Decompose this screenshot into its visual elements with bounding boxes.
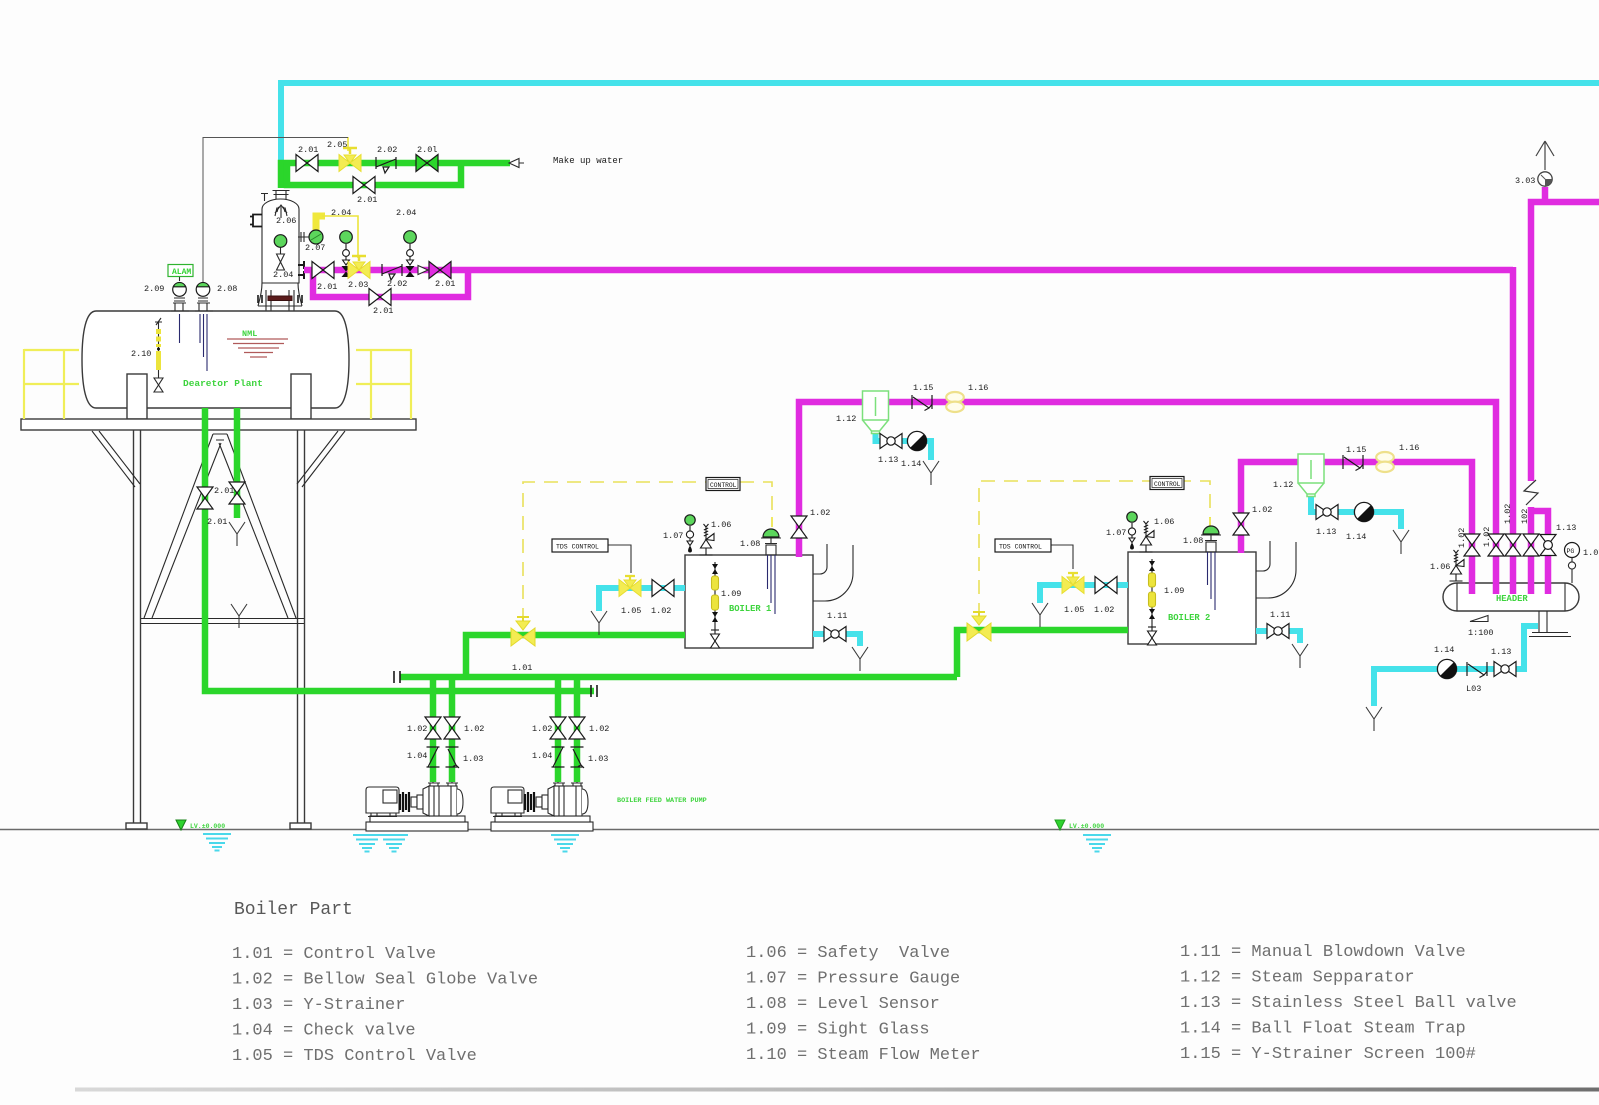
gauge glass 2.10 on tank [154,318,163,396]
wire: magenta line from right edge / vent 3.03 [1531,202,1599,481]
svg-text:2.04: 2.04 [331,208,351,218]
svg-text:1.14: 1.14 [1346,532,1366,542]
drain funnel below outlet B [229,522,245,546]
svg-text:1.13: 1.13 [1316,527,1336,537]
drain funnel TDS boiler 1 [591,611,607,635]
svg-text:1.13: 1.13 [1491,647,1511,657]
CONTROL box boiler 1 [706,478,740,491]
reducer / hose end make-up [509,159,524,168]
ALAM box [168,265,193,277]
pump 2 inlet valves 1.02 [550,717,566,739]
saddle supports [127,374,147,419]
header ball valve 1.13 [1540,535,1556,556]
nozzle: right to 2.07 [298,232,311,242]
wire: green make-up water line to deaerator head [281,163,510,188]
pump 2 strainer 1.03 [571,747,585,768]
svg-text:1.08: 1.08 [1183,536,1203,546]
wire: green riser and branch to boiler 2 [957,630,1128,677]
svg-text:1.11 = Manual Blowdown Valve: 1.11 = Manual Blowdown Valve [1180,943,1466,962]
drain funnel on truss tie [231,604,247,628]
spray nozzle 2.06 [275,205,287,218]
sight glass 1.09 boiler 2 [1148,559,1157,645]
svg-text:1.10 = Steam Flow Meter: 1.10 = Steam Flow Meter [746,1046,981,1065]
TDS CONTROL box boiler 1 [552,539,608,552]
svg-text:2.01: 2.01 [207,517,227,527]
svg-text:1.01 = Control Valve: 1.01 = Control Valve [232,945,436,964]
level probes 2.08/2.09 into tank [180,314,208,371]
wire: pump 2 suction/discharge drops [558,677,577,782]
valve 2.01 globe (steam line) [429,262,451,279]
svg-text:1.15: 1.15 [1346,445,1366,455]
svg-text:1.16: 1.16 [1399,443,1419,453]
svg-text:BOILER 1: BOILER 1 [729,604,771,614]
ball valve 1.13 separator 2 [1316,505,1338,520]
wire: magenta stub to vent 3.03 [1542,187,1549,202]
svg-text:1.03: 1.03 [588,754,608,764]
support legs [126,430,311,829]
svg-text:1.07: 1.07 [663,531,683,541]
svg-text:Dearetor Plant: Dearetor Plant [183,378,263,389]
instrument 2.07 PS [309,230,323,244]
svg-text:2.05: 2.05 [327,140,347,150]
drain funnel blowdown boiler 2 [1292,644,1308,668]
svg-text:1.06: 1.06 [1430,562,1450,572]
svg-text:1.09 = Sight Glass: 1.09 = Sight Glass [746,1021,930,1040]
svg-text:1.02: 1.02 [464,724,484,734]
vent 3.03 [1536,141,1554,186]
svg-text:1.02 = Bellow Seal Globe Valve: 1.02 = Bellow Seal Globe Valve [232,971,538,990]
steam separator 1.12 boiler 2 [1298,454,1324,497]
svg-text:1.02: 1.02 [1252,505,1272,515]
check valve 2.02 (make-up line) [376,157,396,173]
wire: cyan TDS blowdown boiler 2 [1040,585,1128,603]
svg-text:102: 102 [1520,509,1530,524]
safety valve 1.06 boiler 2 [1140,521,1155,552]
instrument 2.09 level alarm [173,276,187,301]
wire: cyan drain separator 1 [876,429,932,460]
globe valve 1.02 TDS boiler 2 [1095,577,1117,594]
drain funnel header condensate [1366,707,1382,731]
boiler 1 flue elbows [813,544,827,574]
water hatch symbols [203,834,231,851]
svg-text:NML: NML [242,329,257,339]
NML level hatch [227,339,288,357]
svg-text:1.15: 1.15 [913,383,933,393]
svg-text:1.04: 1.04 [532,751,552,761]
svg-text:TDS CONTROL: TDS CONTROL [556,544,599,551]
pressure gauge 1.07 header [1565,543,1580,584]
wire: CONTROL dashed loop boiler 1 [523,482,772,622]
header vessel [1443,583,1579,611]
valve 2.01 gate (make-up line) [296,155,318,172]
steam trap 1.14 separator 2 [1354,502,1373,521]
yellow railing right [356,349,411,419]
svg-text:1.06 = Safety Valve: 1.06 = Safety Valve [746,944,950,963]
svg-text:1.12: 1.12 [836,414,856,424]
svg-text:Make up water: Make up water [553,156,623,166]
drain funnel TDS boiler 2 [1032,603,1048,627]
wire: steam from separator 2 to header valve 1 [1324,462,1472,594]
wire: magenta below pipe break to header valve 4 [1528,507,1535,594]
svg-text:1.02: 1.02 [810,508,830,518]
flange pair on suction line end [591,685,597,697]
drain funnel blowdown boiler 1 [852,647,868,671]
svg-text:1.15 = Y-Strainer Screen 100#: 1.15 = Y-Strainer Screen 100# [1180,1045,1476,1064]
svg-text:1:100: 1:100 [1468,628,1494,638]
svg-text:1.12 = Steam Sepparator: 1.12 = Steam Sepparator [1180,969,1415,988]
valve 2.01 (steam line at head) [312,262,334,279]
wire: cyan bottom blowdown boiler 1 [813,634,860,646]
wire: green feed water header 1.01 [400,674,957,681]
level marker LV±0.000 right [1055,820,1065,830]
header inlet valves 1.02 x4 [1464,534,1480,556]
svg-text:1.09: 1.09 [1164,586,1184,596]
svg-text:3.03: 3.03 [1515,176,1535,186]
svg-text:1.13: 1.13 [1556,523,1576,533]
drain funnel separator 1 [923,461,939,485]
svg-text:2.01: 2.01 [357,195,377,205]
level sensor 1.08 boiler 1 [761,529,781,614]
svg-text:1.07: 1.07 [1583,548,1599,558]
svg-text:2.01: 2.01 [298,145,318,155]
svg-text:2.02: 2.02 [377,145,397,155]
svg-text:LV.±0.000: LV.±0.000 [190,823,225,830]
wire: cyan drain separator 2 [1311,492,1401,529]
ground line [0,829,1599,831]
pipe break symbol Z [1524,480,1538,505]
boiler 2 shell [1128,552,1256,644]
sight glass 1.09 boiler 1 [711,562,720,648]
reducer (steam line) [418,266,428,275]
header slope flag 1:100 [1470,616,1488,622]
level sensor 1.08 boiler 2 [1201,526,1221,610]
svg-text:1.02: 1.02 [589,724,609,734]
svg-text:1.02: 1.02 [1482,527,1492,547]
valve 2.01 (steam bypass) [369,289,391,306]
svg-text:PG: PG [1567,548,1575,555]
strainer 1.03 header [1467,662,1487,678]
svg-text:2.04: 2.04 [396,208,416,218]
wire: TDS CONTROL signal boiler 2 [1051,545,1073,569]
svg-text:2.09: 2.09 [144,284,164,294]
blowdown valve 1.11 boiler 2 [1267,624,1289,639]
svg-text:1.02: 1.02 [532,724,552,734]
steam valve 1.02 boiler 1 [791,516,807,538]
svg-text:1.14: 1.14 [901,459,921,469]
header supports [1529,611,1571,637]
pump 1 inlet valves 1.02 [425,717,441,739]
svg-text:1.02: 1.02 [651,606,671,616]
svg-text:1.09: 1.09 [721,589,741,599]
nozzle: right steam inlet pair [298,261,305,279]
steam valve 1.02 boiler 2 [1233,513,1249,535]
svg-text:1.08 = Level Sensor: 1.08 = Level Sensor [746,995,940,1014]
svg-text:1.11: 1.11 [827,611,847,621]
globe valve 1.02 TDS boiler 1 [652,580,674,597]
wire: cyan TDS blowdown boiler 1 [599,588,685,611]
level marker LV±0.000 tower [176,820,186,830]
svg-text:1.11: 1.11 [1270,610,1290,620]
svg-text:2.01: 2.01 [317,282,337,292]
wire: steam from separator 1 to header valve 2 [889,402,1496,594]
pump 1 check valve 1.04 [427,747,440,767]
valve 2.01 on outlet B [229,482,245,504]
svg-text:1.05: 1.05 [1064,605,1084,615]
platform deck [21,419,416,430]
svg-text:TDS CONTROL: TDS CONTROL [999,544,1042,551]
svg-text:CONTROL: CONTROL [1154,481,1181,488]
drain funnel separator 2 [1393,530,1409,554]
control valve 1.01 boiler 2 feed [967,612,991,641]
svg-text:HEADER: HEADER [1496,594,1528,604]
deaerator horizontal tank [82,303,349,408]
wire: cyan bottom blowdown boiler 2 [1256,631,1300,643]
wire: boiler 2 steam riser to separator 2 [1241,462,1298,553]
svg-text:1.08: 1.08 [740,539,760,549]
bottom grey bar [75,1088,1599,1092]
svg-text:ALAM: ALAM [172,268,191,277]
check valve 2.02 (steam line) [382,264,402,280]
wire: cyan make-up water supply main (top) [281,83,1599,166]
A-frame truss [141,434,304,624]
steam separator 1.12 boiler 1 [863,391,889,434]
svg-text:1.05 = TDS Control Valve: 1.05 = TDS Control Valve [232,1047,477,1066]
wire: green deaerator outlet A down to pump suction header [205,408,594,691]
ball valve 1.13 header condensate [1494,662,1516,677]
wire: green deaerator outlet B (drain) [234,408,241,518]
svg-text:1.02: 1.02 [1503,504,1513,524]
pump 2 check valve 1.04 [552,747,565,767]
pump 2 [491,779,593,831]
svg-text:2.07: 2.07 [305,243,325,253]
svg-text:2.02: 2.02 [387,279,407,289]
safety valve 1.06 boiler 1 [700,524,715,555]
pressure gauge 1.07 boiler 2 [1127,512,1137,550]
wire: magenta vertical into header valve 3 [1510,267,1517,594]
svg-text:1.14: 1.14 [1434,645,1454,655]
valve 2.01 globe (make-up line) [416,155,438,172]
yellow railing left [24,349,79,419]
wire: magenta steam line to deaerator head [304,267,1513,274]
pump 1 strainer 1.03 [446,747,460,768]
ball valve 1.13 separator 1 [880,434,902,449]
wire: pump 1 suction/discharge drops [433,677,452,782]
valve 2.05 control valve yellow [339,148,361,172]
svg-text:1.03: 1.03 [463,754,483,764]
svg-text:1.04: 1.04 [407,751,427,761]
svg-text:BOILER 2: BOILER 2 [1168,613,1210,623]
svg-text:BOILER FEED WATER PUMP: BOILER FEED WATER PUMP [617,797,707,805]
Y-strainer 1.15 boiler 1 [912,395,932,411]
svg-text:2.08: 2.08 [217,284,237,294]
svg-text:CONTROL: CONTROL [710,482,737,489]
svg-text:1.07 = Pressure Gauge: 1.07 = Pressure Gauge [746,970,960,989]
wire: magenta branch to header ball valve 5 [1529,511,1548,594]
svg-text:1.16: 1.16 [968,383,988,393]
svg-text:1.02: 1.02 [1457,528,1467,548]
TDS CONTROL box boiler 2 [995,539,1051,552]
wire: boiler 1 steam riser to separator 1.12 [799,402,862,557]
svg-text:1.03 = Y-Strainer: 1.03 = Y-Strainer [232,996,405,1015]
control valve 2.03 yellow [348,256,370,279]
Y-strainer 1.15 boiler 2 [1343,455,1363,471]
svg-text:1.12: 1.12 [1273,480,1293,490]
svg-text:2.01: 2.01 [435,279,455,289]
svg-text:2.03: 2.03 [348,280,368,290]
flange pair on feed header 1.01 [394,671,400,683]
wire: green riser and branch to boiler 1 [466,635,685,677]
boiler 1 shell [685,555,813,648]
svg-text:2.01: 2.01 [214,486,234,496]
svg-text:1.02: 1.02 [407,724,427,734]
pump 1 [366,779,468,831]
instrument 2.08 level transmitter [196,282,210,301]
wire: cyan condensate from header [1374,626,1538,706]
control valve 1.01 boiler 1 feed [511,617,535,646]
valve 2.01 (make-up bypass) [353,177,375,194]
svg-text:1.05: 1.05 [621,606,641,616]
svg-text:2.06: 2.06 [276,216,296,226]
TDS control valve 1.05 boiler 1 [619,576,641,597]
svg-text:L03: L03 [1466,684,1481,694]
svg-text:2.0l: 2.0l [417,145,437,155]
deaerator head vessel 2.06 [250,191,311,312]
gauge inside head vessel [274,235,287,248]
svg-text:2.10: 2.10 [131,349,151,359]
wire: yellow instrument air 2.07 loop [316,216,325,233]
svg-text:1.14 = Ball Float Steam Trap: 1.14 = Ball Float Steam Trap [1180,1020,1466,1039]
svg-text:LV.±0.000: LV.±0.000 [1069,823,1104,830]
pressure gauge 1.07 boiler 1 [685,515,695,553]
wire: CONTROL dashed loop boiler 2 [979,481,1210,617]
svg-text:1.04 = Check valve: 1.04 = Check valve [232,1022,416,1041]
boiler 2 flue elbows [1256,541,1270,571]
diagonal braces [92,431,345,487]
svg-text:1.13: 1.13 [878,455,898,465]
valve 2.01 on outlet A [197,487,213,509]
nozzle: left side manway [250,215,262,227]
safety valve 1.06 header [1450,550,1465,581]
svg-text:2.01: 2.01 [373,306,393,316]
CONTROL box boiler 2 [1150,477,1184,490]
steam flow meter 1.16 boiler 1 [946,392,964,412]
wire: black signal 2.08 to valve 2.05 [203,138,348,285]
svg-text:1.06: 1.06 [1154,517,1174,527]
svg-text:1.01: 1.01 [512,663,532,673]
steam trap 1.14 separator 1 [907,431,926,450]
svg-text:2.04: 2.04 [273,270,293,280]
instrument valve with 2.04 (right) [404,231,417,277]
tank nozzle flanges for 2.09 / 2.08 [171,303,189,311]
steam flow meter 1.16 boiler 2 [1376,452,1394,472]
TDS control valve 1.05 boiler 2 [1062,573,1084,594]
blowdown valve 1.11 boiler 1 [824,627,846,642]
wire: magenta steam bypass loop at deaerator [313,270,468,297]
svg-text:1.06: 1.06 [711,520,731,530]
svg-text:1.13 = Stainless Steel Ball va: 1.13 = Stainless Steel Ball valve [1180,994,1517,1013]
wire: TDS CONTROL signal boiler 1 [608,545,631,573]
svg-text:1.02: 1.02 [1094,605,1114,615]
instrument valve with 2.04 (left) [340,231,353,277]
wire: yellow signal to valve 2.05 [347,137,349,151]
svg-text:1.07: 1.07 [1106,528,1126,538]
svg-text:Boiler Part: Boiler Part [234,900,353,920]
wire: green make-up bypass loop [287,163,461,185]
condensate trap 1.14 header [1437,659,1456,678]
